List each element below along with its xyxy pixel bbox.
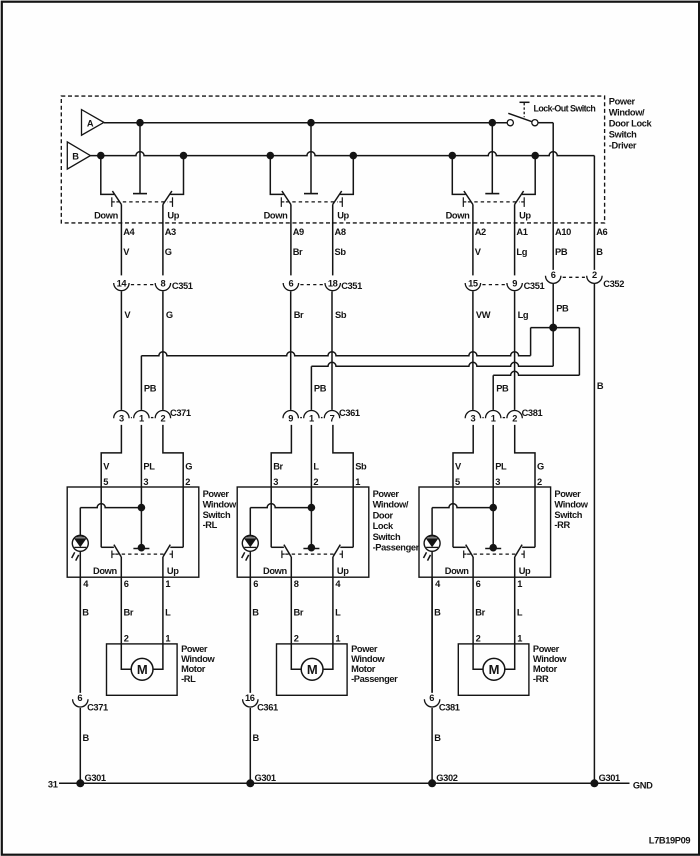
wire - up output pin 1 (-RR)	[514, 557, 516, 644]
wire - down contact feed (RL)	[101, 156, 114, 195]
inline connector C371 pin 6	[73, 693, 108, 713]
switch blade - up (-RL)	[163, 545, 170, 557]
svg-text:Motor: Motor	[533, 664, 558, 674]
switch label -RR	[554, 489, 588, 530]
wire A9 (Br) from driver switch to C351 pin 6	[290, 205, 292, 276]
svg-text:PL: PL	[143, 462, 155, 472]
svg-text:C381: C381	[439, 703, 460, 713]
node - line B junction dot right (RR)	[531, 152, 539, 160]
power window switch box -RL	[67, 487, 199, 577]
svg-text:3: 3	[119, 414, 124, 424]
svg-text:9: 9	[288, 414, 293, 424]
svg-text:Power: Power	[203, 489, 230, 499]
node - line B junction dot right (RL)	[180, 152, 188, 160]
svg-text:8: 8	[161, 279, 166, 289]
wire - Br jog into switch -Passenger pin 3	[271, 425, 291, 487]
svg-text:-RR: -RR	[533, 674, 549, 684]
svg-text:Window: Window	[181, 654, 215, 664]
contact tick - down side (RL)	[112, 197, 115, 207]
wire - G jog into switch -RR pin 2	[515, 425, 535, 487]
wire - PB junction cross-bar	[531, 327, 580, 329]
wire - lamp to ground pin 6 (-Passenger)	[249, 551, 251, 692]
switch blade - up (RR)	[515, 191, 524, 205]
svg-text:6: 6	[124, 579, 129, 589]
svg-text:PB: PB	[496, 384, 509, 394]
svg-text:16: 16	[245, 693, 255, 703]
contact tick - up (-RR)	[521, 551, 524, 559]
switch label -RL	[203, 489, 237, 530]
svg-text:3: 3	[471, 414, 476, 424]
svg-text:1: 1	[165, 579, 170, 589]
wire - PB drop to RL bus	[530, 328, 532, 356]
motor label -RL	[181, 644, 215, 684]
svg-text:Down: Down	[263, 566, 287, 576]
svg-text:Br: Br	[293, 247, 303, 257]
wire - pin 2 to up contact (-RL)	[170, 487, 183, 547]
wire - PB bus to passenger switch pin 1	[311, 362, 553, 366]
svg-text:1: 1	[309, 414, 314, 424]
node - line A tap dot, driver passenger window switch	[307, 119, 315, 127]
svg-text:Lock-Out Switch: Lock-Out Switch	[534, 104, 596, 114]
svg-text:-Driver: -Driver	[609, 141, 637, 151]
bus line A (from arrow A to lock-out switch)	[104, 122, 507, 124]
svg-text:G301: G301	[255, 773, 276, 783]
ground node dot G301	[246, 779, 254, 787]
wire - pin 3 common (-RL)	[140, 487, 142, 549]
svg-text:G302: G302	[436, 773, 457, 783]
switch blade - down (RR)	[464, 191, 473, 205]
common contact bar (-Passenger)	[303, 548, 319, 550]
svg-text:L: L	[517, 608, 523, 618]
svg-text:C352: C352	[603, 279, 624, 289]
svg-text:Down: Down	[446, 211, 470, 221]
svg-text:B: B	[434, 608, 441, 618]
svg-text:-RL: -RL	[203, 520, 218, 530]
switch blade - down (passenger)	[282, 191, 291, 205]
svg-text:1: 1	[139, 414, 144, 424]
svg-text:6: 6	[253, 579, 258, 589]
svg-text:PB: PB	[555, 247, 568, 257]
wire - PB bus to RL switch pin 1	[141, 352, 530, 356]
switch blade - up (-Passenger)	[333, 545, 340, 557]
svg-text:L7B19P09: L7B19P09	[649, 835, 691, 845]
connector C351 pins 6/18	[283, 279, 362, 292]
svg-text:A4: A4	[123, 227, 135, 237]
svg-text:B: B	[596, 247, 603, 257]
mechanical link (dashed) (RR)	[468, 201, 520, 203]
wire - down contact feed (passenger)	[270, 156, 283, 195]
wire - lamp feed with hop (-Passenger)	[250, 504, 311, 508]
svg-text:Down: Down	[264, 211, 288, 221]
contact tick - down (-RR)	[464, 551, 467, 559]
switch blade - down (RL)	[112, 191, 121, 205]
wire - PB drop passenger pin 1	[310, 366, 312, 410]
power window motor box -RL	[107, 644, 178, 695]
svg-text:6: 6	[429, 693, 434, 703]
contact tick - up side (RR)	[521, 197, 524, 207]
svg-text:Window/: Window/	[373, 500, 409, 510]
wire - up contact feed (RL)	[170, 156, 183, 195]
svg-text:Br: Br	[294, 310, 304, 320]
svg-text:Lg: Lg	[516, 247, 527, 257]
wire - lamp to ground pin 4 (-RL)	[79, 551, 81, 692]
bus line B (from arrow B, hops over switch commons, to A6 drop)	[90, 152, 594, 156]
wire - up contact feed (RR)	[522, 156, 535, 195]
svg-text:1: 1	[165, 633, 170, 643]
node - lamp tap dot (-RR)	[489, 504, 497, 512]
svg-text:3: 3	[143, 477, 148, 487]
svg-text:Up: Up	[337, 566, 349, 576]
svg-text:2: 2	[161, 414, 166, 424]
node - line B junction dot left (RR)	[449, 152, 457, 160]
wire - pin 3 to down contact (-Passenger)	[271, 487, 284, 547]
svg-text:VW: VW	[476, 310, 491, 320]
connector C352 pins 6/2	[546, 270, 625, 289]
ground node dot right (driver B)	[590, 779, 598, 787]
svg-text:Br: Br	[273, 462, 283, 472]
common contact bar (-RL)	[133, 548, 149, 550]
motor M symbol (-Passenger)	[301, 658, 323, 680]
svg-text:15: 15	[468, 279, 478, 289]
svg-text:G301: G301	[85, 773, 106, 783]
wire - B to inline connector C361 (G301)	[249, 577, 251, 693]
wire - line B drop to A6	[593, 156, 595, 270]
wire - B to inline connector C381 (G302)	[431, 577, 433, 693]
svg-text:Lg: Lg	[518, 310, 529, 320]
svg-text:2: 2	[512, 414, 517, 424]
contact tick - down side (RR)	[463, 197, 466, 207]
wire - down contact feed (RR)	[452, 156, 465, 195]
ground node dot G301	[76, 779, 84, 787]
wire A4 (V) from driver switch to C351 pin 14	[120, 205, 122, 276]
svg-text:1: 1	[355, 477, 360, 487]
module label -Driver	[609, 97, 653, 151]
ground rail	[59, 782, 630, 784]
svg-text:Window: Window	[203, 499, 237, 509]
wire - PB drop RR pin 1	[492, 375, 494, 410]
svg-text:-Passenger: -Passenger	[373, 543, 420, 553]
svg-text:8: 8	[294, 579, 299, 589]
wire - PB drop to RR bus	[578, 328, 580, 376]
switch label -Passenger	[373, 489, 420, 553]
ground node dot G302	[428, 779, 436, 787]
svg-text:Switch: Switch	[203, 510, 231, 520]
wire - switch common from line A (RL)	[133, 123, 147, 194]
motor label -Passenger	[351, 644, 398, 684]
svg-text:B: B	[253, 733, 260, 743]
wire - V jog into switch -RR pin 5	[453, 425, 473, 487]
svg-text:3: 3	[273, 477, 278, 487]
svg-text:A3: A3	[165, 227, 176, 237]
node - line B junction dot left (RL)	[97, 152, 105, 160]
svg-text:PB: PB	[144, 384, 157, 394]
wire - motor pin 2 lead (-RR)	[473, 644, 483, 669]
connector arrow B (power feed)	[67, 142, 90, 169]
svg-text:PB: PB	[314, 384, 327, 394]
contact tick - up side (passenger)	[339, 197, 342, 207]
svg-text:Power: Power	[373, 489, 400, 499]
wire - lamp drop (-RL)	[79, 508, 81, 536]
svg-text:M: M	[137, 662, 147, 677]
node - line A tap dot, driver RR window switch	[489, 119, 497, 127]
wire - pin 5 to down contact (-RR)	[453, 487, 466, 547]
node - lamp tap dot (-Passenger)	[308, 504, 316, 512]
svg-text:31: 31	[48, 780, 58, 790]
power window switch box -RR	[419, 487, 551, 577]
svg-text:2: 2	[537, 477, 542, 487]
svg-text:2: 2	[124, 633, 129, 643]
svg-text:B: B	[83, 733, 90, 743]
svg-text:2: 2	[592, 270, 597, 280]
connector C361 pins 9/1/7	[283, 408, 360, 424]
svg-text:L: L	[335, 608, 341, 618]
svg-text:A10: A10	[555, 227, 571, 237]
svg-text:Door: Door	[373, 510, 394, 520]
svg-text:Switch: Switch	[554, 510, 582, 520]
node - common bar dot (-RR)	[489, 544, 497, 552]
wire - PB bus to RR switch pin 1	[493, 371, 579, 375]
wire - down output pin 6 (-RL)	[120, 557, 122, 644]
wire A2 (V) from driver switch to C351 pin 15	[472, 205, 474, 276]
inline connector C381 pin 6	[424, 693, 459, 713]
svg-text:Sb: Sb	[355, 462, 367, 472]
switch blade - down (-RR)	[466, 545, 473, 557]
common contact bar (-RR)	[485, 548, 501, 550]
wire Sb from C351 to door connector	[331, 291, 333, 410]
wire - down output pin 6 (-RR)	[472, 557, 474, 644]
wire - motor pin 2 lead (-RL)	[121, 644, 131, 669]
mechanical link dashed (-RL)	[115, 553, 166, 555]
wire - up contact feed (passenger)	[340, 156, 353, 195]
svg-text:C351: C351	[524, 281, 545, 291]
svg-text:B: B	[72, 151, 79, 161]
svg-text:Window: Window	[351, 654, 385, 664]
svg-text:-Passenger: -Passenger	[351, 674, 398, 684]
svg-text:3: 3	[495, 477, 500, 487]
wire Lg from C351 to door connector	[514, 291, 516, 410]
svg-text:L: L	[313, 462, 319, 472]
motor label -RR	[533, 644, 567, 684]
svg-text:Power: Power	[181, 644, 208, 654]
svg-text:7: 7	[330, 414, 335, 424]
contact tick - down side (passenger)	[281, 197, 284, 207]
illumination LED (-Passenger)	[242, 535, 259, 560]
svg-text:Br: Br	[475, 608, 485, 618]
mechanical link dashed (-Passenger)	[285, 553, 336, 555]
switch blade - down (-RL)	[114, 545, 121, 557]
svg-text:B: B	[82, 608, 89, 618]
svg-text:1: 1	[517, 579, 522, 589]
svg-text:B: B	[434, 733, 441, 743]
svg-text:6: 6	[551, 270, 556, 280]
connector C381 pins 3/1/2	[465, 408, 542, 424]
svg-text:Up: Up	[519, 211, 531, 221]
svg-text:6: 6	[476, 579, 481, 589]
contact tick - down (-Passenger)	[282, 551, 285, 559]
power window switch box -Passenger	[237, 487, 369, 577]
inline connector C361 pin 16	[243, 693, 278, 713]
wire - B to ground (G301)	[79, 708, 81, 783]
svg-text:2: 2	[476, 633, 481, 643]
svg-text:G: G	[185, 462, 192, 472]
svg-text:Up: Up	[337, 211, 349, 221]
motor M symbol (-RR)	[483, 658, 505, 680]
svg-text:Power: Power	[554, 489, 581, 499]
svg-text:-RR: -RR	[554, 520, 570, 530]
svg-text:C361: C361	[257, 703, 278, 713]
svg-text:Window/: Window/	[609, 108, 645, 118]
wire - down output pin 8 (-Passenger)	[290, 557, 292, 644]
wire - PL into switch -RR pin 3	[492, 425, 494, 487]
svg-text:Down: Down	[94, 211, 118, 221]
wire - B to ground (G302)	[431, 708, 433, 783]
svg-text:C361: C361	[339, 408, 360, 418]
wire - lamp feed with hop (-RL)	[80, 504, 141, 508]
node - line A tap dot, driver RL window switch	[136, 119, 144, 127]
svg-text:C371: C371	[170, 408, 191, 418]
svg-text:2: 2	[294, 633, 299, 643]
wire - V jog into switch -RL pin 5	[101, 425, 121, 487]
wire - switch common from line A (RR)	[485, 123, 499, 194]
svg-text:6: 6	[77, 693, 82, 703]
wire - pin 2 common (-Passenger)	[310, 487, 312, 549]
svg-text:5: 5	[455, 477, 460, 487]
wire A3 (G) from driver switch to C351 pin 8	[162, 205, 164, 276]
svg-text:Up: Up	[167, 211, 179, 221]
svg-text:Sb: Sb	[335, 247, 347, 257]
svg-text:A8: A8	[335, 227, 346, 237]
svg-text:A: A	[87, 118, 94, 128]
svg-text:14: 14	[117, 279, 128, 289]
svg-text:6: 6	[289, 279, 294, 289]
wire - lamp to ground pin 4 (-RR)	[431, 551, 433, 692]
svg-text:C381: C381	[522, 408, 543, 418]
svg-text:PL: PL	[495, 462, 507, 472]
connector arrow A (power feed)	[82, 110, 104, 136]
svg-text:2: 2	[313, 477, 318, 487]
svg-text:Power: Power	[351, 644, 378, 654]
svg-text:Up: Up	[519, 566, 531, 576]
svg-text:Br: Br	[124, 608, 134, 618]
svg-text:Door Lock: Door Lock	[609, 119, 653, 129]
svg-text:Up: Up	[167, 566, 179, 576]
wire - pin 2 to up contact (-RR)	[522, 487, 535, 547]
connector C351 pins 15/9	[465, 279, 544, 292]
svg-text:M: M	[489, 662, 499, 677]
svg-text:-RL: -RL	[181, 674, 196, 684]
mechanical link (dashed) (RL)	[116, 201, 167, 203]
svg-text:Switch: Switch	[373, 532, 401, 542]
svg-text:A1: A1	[516, 227, 527, 237]
contact tick - up (-Passenger)	[340, 551, 343, 559]
svg-text:L: L	[165, 608, 171, 618]
svg-text:B: B	[252, 608, 259, 618]
node - line B junction dot right (passenger)	[350, 152, 358, 160]
wire Br from C351 to door connector	[290, 291, 292, 410]
svg-text:1: 1	[517, 633, 522, 643]
wire B from C352 pin 2 down right side to ground	[593, 284, 595, 783]
wire - pin 3 common (-RR)	[492, 487, 494, 549]
contact tick - down (-RL)	[112, 551, 115, 559]
wire PB from C352 pin 6 down to distribution node	[552, 284, 554, 366]
svg-text:Motor: Motor	[181, 664, 206, 674]
svg-text:5: 5	[103, 477, 108, 487]
svg-text:C351: C351	[172, 281, 193, 291]
contact tick - up (-RL)	[170, 551, 173, 559]
wire - PB drop RL pin 1	[140, 356, 142, 410]
wire G from C351 to door connector	[162, 291, 164, 410]
svg-text:B: B	[597, 381, 604, 391]
svg-text:Switch: Switch	[609, 130, 637, 140]
mechanical link dashed (-RR)	[467, 553, 518, 555]
svg-text:Window: Window	[533, 654, 567, 664]
wire - lamp drop (-Passenger)	[249, 508, 251, 536]
contact tick - up side (RL)	[170, 197, 173, 207]
svg-text:Sb: Sb	[335, 310, 347, 320]
svg-text:Motor: Motor	[351, 664, 376, 674]
wire - motor pin 2 lead (-Passenger)	[291, 644, 301, 669]
svg-text:1: 1	[335, 633, 340, 643]
switch blade - down (-Passenger)	[284, 545, 291, 557]
node - lamp tap dot (-RL)	[138, 504, 146, 512]
svg-text:C371: C371	[87, 703, 108, 713]
illumination LED (-RR)	[424, 535, 441, 560]
svg-text:Lock: Lock	[373, 521, 394, 531]
wire - motor pin 1 lead (-RL)	[153, 644, 163, 669]
switch blade - up (RL)	[163, 191, 172, 205]
motor M symbol (-RL)	[131, 658, 153, 680]
svg-text:PB: PB	[556, 304, 569, 314]
svg-text:Power: Power	[609, 97, 636, 107]
connector C351 pins 14/8	[114, 279, 193, 292]
node - line B junction dot left (passenger)	[267, 152, 275, 160]
svg-text:A6: A6	[596, 227, 607, 237]
wire - PL into switch -RL pin 3	[140, 425, 142, 487]
svg-text:GND: GND	[633, 780, 653, 790]
power window motor box -RR	[458, 644, 529, 695]
wire - switch common from line A (passenger)	[304, 123, 318, 194]
svg-text:Power: Power	[533, 644, 560, 654]
svg-text:2: 2	[185, 477, 190, 487]
svg-text:18: 18	[328, 279, 338, 289]
svg-text:G: G	[166, 310, 173, 320]
svg-text:M: M	[307, 662, 317, 677]
svg-text:Down: Down	[445, 566, 469, 576]
svg-text:Br: Br	[294, 608, 304, 618]
svg-text:G: G	[537, 462, 544, 472]
wire - B to ground (G301)	[249, 708, 251, 783]
svg-text:G: G	[165, 247, 172, 257]
wire A8 (Sb) from driver switch to C351 pin 18	[332, 205, 334, 276]
connector C371 pins 3/1/2	[114, 408, 191, 424]
mechanical link (dashed) (passenger)	[286, 201, 338, 203]
svg-text:Window: Window	[554, 499, 588, 509]
svg-text:G301: G301	[599, 773, 620, 783]
svg-text:A9: A9	[293, 227, 304, 237]
wire - motor pin 1 lead (-RR)	[505, 644, 515, 669]
svg-text:A2: A2	[475, 227, 486, 237]
wire A1 (Lg) from driver switch to C351 pin 9	[514, 205, 516, 276]
wire - B to inline connector C371 (G301)	[79, 577, 81, 693]
lock-out switch	[507, 102, 595, 125]
switch blade - up (-RR)	[515, 545, 522, 557]
node - common bar dot (-Passenger)	[308, 544, 316, 552]
node - common bar dot (-RL)	[138, 544, 146, 552]
switch blade - up (passenger)	[333, 191, 342, 205]
wire - up output pin 4 (-Passenger)	[332, 557, 334, 644]
wire - G jog into switch -RL pin 2	[163, 425, 183, 487]
wire - lamp drop (-RR)	[431, 508, 433, 536]
